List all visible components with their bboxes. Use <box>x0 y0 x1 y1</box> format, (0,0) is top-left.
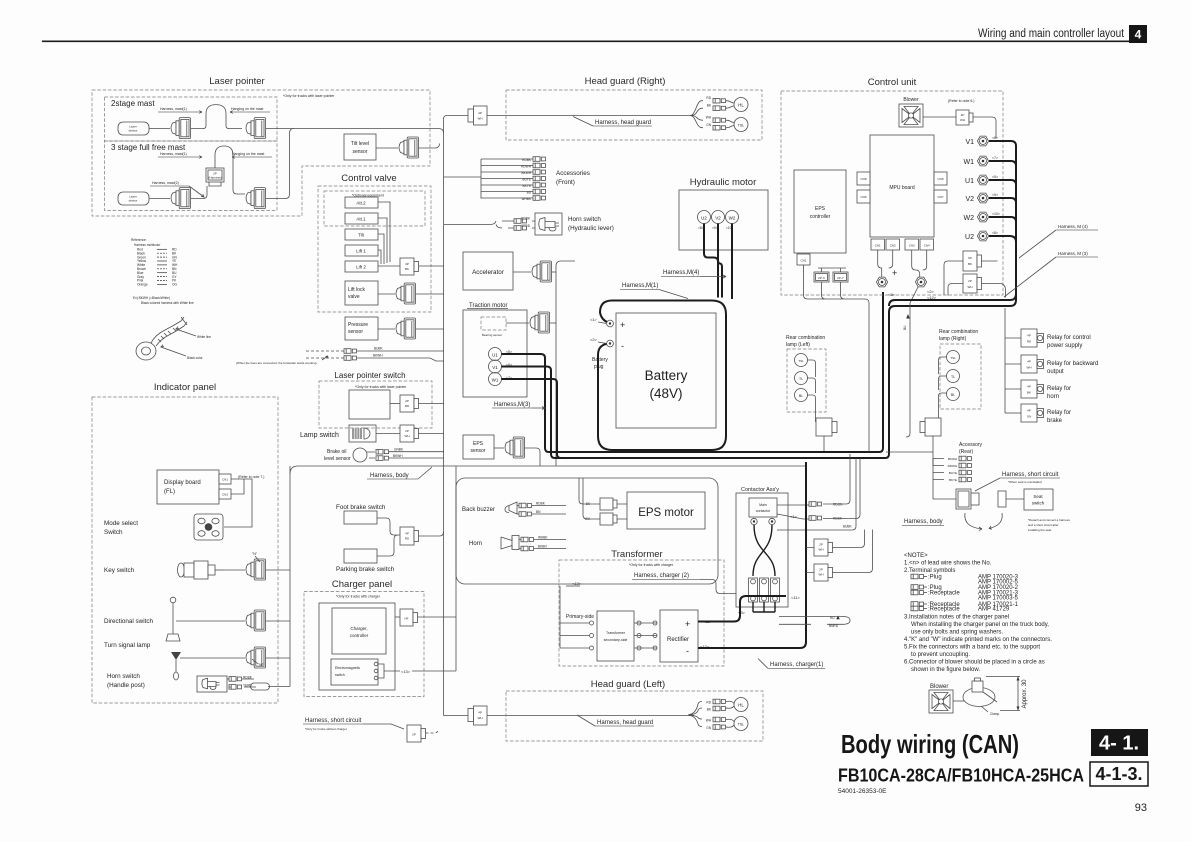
svg-text:WH: WH <box>405 434 410 438</box>
svg-text:RDGN: RDGN <box>833 503 843 507</box>
svg-text:installing the seat.: installing the seat. <box>1028 528 1052 532</box>
svg-text:WH: WH <box>819 573 824 577</box>
svg-text:Relay for: Relay for <box>1047 410 1071 416</box>
svg-text:BUBK: BUBK <box>843 525 853 529</box>
svg-text:Clamp: Clamp <box>990 712 999 716</box>
svg-text:Head guard (Right): Head guard (Right) <box>585 76 666 87</box>
svg-text:secondary-side: secondary-side <box>604 638 628 642</box>
svg-text:contactor: contactor <box>756 509 771 513</box>
head guard left connector 4P WH <box>468 709 474 722</box>
svg-text:(Refer to note 7.): (Refer to note 7.) <box>238 475 264 479</box>
svg-text:Control valve: Control valve <box>341 173 396 184</box>
svg-text:Harness, body: Harness, body <box>904 519 943 525</box>
pressure sensor <box>345 317 378 340</box>
battery cable loop <box>598 301 726 451</box>
svg-text:Directional switch: Directional switch <box>104 618 153 625</box>
charger controller <box>332 608 386 654</box>
svg-text:Harness, short circuit: Harness, short circuit <box>1002 472 1059 478</box>
6P BK connector <box>963 251 977 271</box>
svg-text:Tilt level: Tilt level <box>351 141 369 147</box>
svg-text:FB10CA-28CA/FB10HCA-25HCA: FB10CA-28CA/FB10HCA-25HCA <box>838 765 1084 786</box>
terminal 3 <box>876 277 887 287</box>
hydraulic thick wires <box>704 224 718 298</box>
svg-text:Key switch: Key switch <box>104 567 135 574</box>
svg-text:Tilt: Tilt <box>358 233 365 238</box>
svg-text:TSL: TSL <box>798 359 804 363</box>
horn switch hydraulic <box>444 221 535 228</box>
svg-text:lamp (Left): lamp (Left) <box>786 342 810 348</box>
svg-text:WH: WH <box>706 116 712 120</box>
charger connector <box>400 609 413 626</box>
forwarder count wires <box>306 350 344 352</box>
svg-text:*Only for trucks with charger.: *Only for trucks with charger. <box>629 563 674 567</box>
coiled cable 3stage upper <box>215 146 245 194</box>
tilt level sensor <box>344 134 376 160</box>
wire <box>149 128 170 130</box>
svg-text:When installing the charger pa: When installing the charger panel on the… <box>911 622 1049 628</box>
svg-text:TL: TL <box>951 375 955 379</box>
svg-text:Harness,M(3): Harness,M(3) <box>494 402 530 408</box>
svg-text:Brake oil: Brake oil <box>327 449 346 455</box>
valve Lift 2 <box>345 261 378 272</box>
svg-text:brake: brake <box>1047 418 1063 424</box>
laser device 1 <box>118 122 149 135</box>
svg-text:HL: HL <box>738 703 744 708</box>
svg-text:Accessory: Accessory <box>959 442 983 448</box>
svg-text:+: + <box>685 619 690 629</box>
svg-text:RDBK: RDBK <box>536 502 546 506</box>
svg-text:MPU board: MPU board <box>889 185 915 191</box>
svg-text:CN3: CN3 <box>909 244 915 248</box>
connector mast2 left <box>171 188 191 209</box>
seat switch assembly <box>956 489 971 509</box>
svg-text:*Detach and connect a harness: *Detach and connect a harness <box>1028 518 1070 522</box>
header rule <box>42 40 1147 42</box>
svg-text:RD: RD <box>706 96 711 100</box>
svg-text:Head guard (Left): Head guard (Left) <box>591 679 665 690</box>
svg-text:-: - <box>686 646 689 656</box>
svg-text:BL: BL <box>799 394 803 398</box>
svg-text:BN: BN <box>536 510 541 514</box>
svg-text:Mode select: Mode select <box>104 520 138 527</box>
svg-text:4P: 4P <box>405 532 409 536</box>
svg-text:1.<n> of lead wire shows the N: 1.<n> of lead wire shows the No. <box>904 561 992 567</box>
harness body container top <box>298 465 807 467</box>
svg-text:TL: TL <box>799 377 803 381</box>
svg-text:*When seat is uninstalled: *When seat is uninstalled <box>1008 480 1042 484</box>
svg-text:<9>: <9> <box>712 226 718 230</box>
svg-text:Parking brake switch: Parking brake switch <box>336 566 395 573</box>
svg-text:BL: BL <box>951 393 955 397</box>
svg-text:level sensor: level sensor <box>324 456 351 462</box>
svg-text:CN1: CN1 <box>875 244 881 248</box>
note text <box>904 553 1052 673</box>
svg-text:WH: WH <box>960 118 965 122</box>
svg-text:Turn signal lamp: Turn signal lamp <box>104 642 151 649</box>
svg-text:WH: WH <box>968 285 973 289</box>
header chapter box 4 <box>1129 25 1147 43</box>
svg-text:BK: BK <box>968 262 972 266</box>
svg-text:4P: 4P <box>1027 360 1031 364</box>
svg-text:5.Fix the connectors with a ba: 5.Fix the connectors with a band etc. to… <box>904 645 1040 651</box>
svg-text:Back buzzer: Back buzzer <box>462 507 495 513</box>
coiled cable 3stage lower <box>191 186 207 199</box>
svg-text:WH: WH <box>706 719 712 723</box>
svg-text:output: output <box>1047 369 1064 375</box>
svg-text:BKWH: BKWH <box>948 457 957 461</box>
svg-text:54001-26353-0E: 54001-26353-0E <box>838 788 887 795</box>
valve Att.1 <box>345 213 378 224</box>
CN wires down <box>878 250 927 278</box>
svg-text::Plug: :Plug <box>928 575 942 581</box>
detach arrows <box>965 513 1002 531</box>
connector mast1 left <box>171 118 191 139</box>
svg-text:2P: 2P <box>412 733 416 737</box>
svg-text:2P: 2P <box>405 399 409 403</box>
svg-text:W1: W1 <box>492 378 499 383</box>
svg-text:Horn switch: Horn switch <box>568 216 601 223</box>
svg-text:lamp (Right): lamp (Right) <box>939 336 967 342</box>
rectifier thick wires <box>698 596 786 622</box>
svg-text:"W": "W" <box>258 663 265 667</box>
svg-text:BKBN: BKBN <box>538 545 547 549</box>
svg-text:<6>: <6> <box>992 136 998 140</box>
valve Att.2 <box>345 197 378 208</box>
head lamp HL <box>726 101 734 109</box>
svg-text:Harness, mast(1): Harness, mast(1) <box>160 107 187 111</box>
relay for control power supply <box>1021 329 1044 347</box>
svg-text:Ex) BKWH (=Black/White): Ex) BKWH (=Black/White) <box>133 296 170 300</box>
connector 4P WH top <box>468 109 474 122</box>
svg-text:V2: V2 <box>965 196 974 203</box>
head guard left feed <box>444 715 469 717</box>
svg-text:4-1-3.: 4-1-3. <box>1095 764 1142 784</box>
svg-text:Hanging on the mast: Hanging on the mast <box>231 107 263 111</box>
relay for backward output <box>1021 355 1044 373</box>
svg-text:Att.2: Att.2 <box>356 201 366 206</box>
svg-text:+: + <box>892 268 897 278</box>
svg-text:+: + <box>620 320 625 330</box>
svg-text:Charger,: Charger, <box>350 626 367 631</box>
svg-text:3.Installation notes of the ch: 3.Installation notes of the charger pane… <box>904 615 1009 621</box>
svg-text:BK: BK <box>707 104 712 108</box>
rectifier <box>660 610 698 662</box>
svg-text:2P-X: 2P-X <box>818 276 825 280</box>
svg-text::Receptacle: :Receptacle <box>928 607 960 613</box>
svg-text:Harness,M(1): Harness,M(1) <box>622 283 658 289</box>
relay for horn <box>1021 380 1044 398</box>
svg-text:<13>: <13> <box>401 669 411 674</box>
svg-text:TSL: TSL <box>738 722 744 726</box>
svg-text:AMP 41729: AMP 41729 <box>978 607 1010 613</box>
svg-text:4: 4 <box>1135 28 1142 42</box>
svg-text:Harness multicolor: Harness multicolor <box>134 243 161 247</box>
MPU bottom connectors <box>871 239 885 250</box>
svg-text:(Refer to note 6.): (Refer to note 6.) <box>948 99 974 103</box>
svg-text:Horn: Horn <box>469 541 482 547</box>
valve Tilt <box>345 229 378 240</box>
svg-text:(Harness): (Harness) <box>208 176 221 180</box>
svg-text:Relay for backward: Relay for backward <box>1047 361 1098 367</box>
fuses <box>749 578 780 602</box>
svg-text:Att.1: Att.1 <box>356 217 366 222</box>
svg-text:2P-Y: 2P-Y <box>837 276 844 280</box>
svg-text:Blower: Blower <box>930 684 948 690</box>
svg-text:Battery: Battery <box>592 357 608 363</box>
svg-text:Contactor Ass'y: Contactor Ass'y <box>741 487 779 493</box>
svg-text:Lift 2: Lift 2 <box>356 265 366 270</box>
svg-text:6P: 6P <box>968 256 972 260</box>
svg-text:*Only for trucks without charg: *Only for trucks without charger <box>305 727 347 731</box>
svg-text:Harness, head guard: Harness, head guard <box>595 120 651 126</box>
turn signal lamp TSL <box>726 120 734 128</box>
svg-text:OG: OG <box>172 283 177 287</box>
svg-text:TSL: TSL <box>950 356 956 360</box>
svg-text:controller: controller <box>810 214 831 220</box>
svg-text:(Rear): (Rear) <box>959 449 974 455</box>
svg-text:<2>: <2> <box>927 289 935 294</box>
valve Lift 1 <box>345 245 378 256</box>
svg-text:2P: 2P <box>819 568 823 572</box>
svg-text:Indicator panel: Indicator panel <box>154 382 216 393</box>
svg-text:<5>: <5> <box>992 175 998 179</box>
traction thick wires <box>502 292 884 452</box>
svg-text:CN4: CN4 <box>924 244 930 248</box>
svg-text:U2: U2 <box>701 216 707 221</box>
svg-text:2P: 2P <box>961 113 965 117</box>
svg-text:4P: 4P <box>478 111 482 115</box>
lift lock valve <box>345 281 378 305</box>
svg-text:2P: 2P <box>405 429 409 433</box>
svg-text:(Handle post): (Handle post) <box>107 682 145 689</box>
svg-text:valve: valve <box>348 294 360 300</box>
svg-text:Orange: Orange <box>137 283 148 287</box>
lamp left connector <box>816 418 832 436</box>
svg-text:2P: 2P <box>968 279 972 283</box>
svg-text:GN: GN <box>1027 415 1032 419</box>
svg-text:(When the lines are connected,: (When the lines are connected, the forwa… <box>236 361 317 365</box>
svg-text:AMP 170003-5: AMP 170003-5 <box>978 596 1019 602</box>
svg-text:Lift 1: Lift 1 <box>356 249 366 254</box>
2P WH connector <box>963 274 977 293</box>
svg-text:Charger panel: Charger panel <box>332 579 392 590</box>
svg-text:BKWH: BKWH <box>373 354 383 358</box>
svg-text:BKWH: BKWH <box>393 454 403 458</box>
svg-text:switch: switch <box>1032 501 1045 506</box>
svg-text:HF: HF <box>405 617 409 621</box>
branch wires <box>690 101 703 128</box>
svg-text:<9>: <9> <box>992 193 998 197</box>
mid connector on mast2 cable <box>206 168 224 182</box>
chapter black box <box>1091 729 1148 756</box>
seat switch <box>1024 489 1053 510</box>
svg-text:horn: horn <box>1047 394 1059 400</box>
svg-text:<NOTE>: <NOTE> <box>904 553 928 559</box>
svg-text:Primary-side: Primary-side <box>566 614 594 620</box>
svg-text:V2: V2 <box>715 216 721 221</box>
svg-text:sensor: sensor <box>348 329 363 335</box>
svg-text:GNBK: GNBK <box>394 448 404 452</box>
svg-text:Reference:: Reference: <box>131 238 147 242</box>
svg-text:Bearing sensor: Bearing sensor <box>482 333 502 337</box>
svg-text:Wiring and main controller lay: Wiring and main controller layout <box>978 28 1125 40</box>
svg-text:Harness, body: Harness, body <box>370 473 409 479</box>
turn signal TSL left <box>726 719 734 727</box>
svg-text:TSL: TSL <box>738 123 744 127</box>
svg-text:4P: 4P <box>478 711 482 715</box>
charger feed bus B <box>455 466 457 671</box>
svg-text:Laser pointer: Laser pointer <box>209 76 264 87</box>
svg-text:and a short circuit after: and a short circuit after <box>1028 523 1059 527</box>
accelerator <box>463 252 513 290</box>
svg-text:Control unit: Control unit <box>868 77 917 88</box>
connector mast2 right <box>246 188 266 209</box>
svg-text:use only bolts and spring wash: use only bolts and spring washers. <box>911 630 1003 636</box>
2stage mast box <box>105 97 278 141</box>
svg-text:Harness, M (3): Harness, M (3) <box>1058 251 1088 256</box>
svg-text:Transformer: Transformer <box>606 631 626 635</box>
valve wires to connector <box>378 202 400 266</box>
svg-text:sensor: sensor <box>470 448 485 454</box>
svg-text:4- 1.: 4- 1. <box>1099 733 1139 755</box>
svg-text:EPS: EPS <box>473 441 484 447</box>
terminal thick stubs <box>889 141 1016 306</box>
svg-text:<2>: <2> <box>590 337 598 342</box>
wire vertical bus A <box>444 116 469 120</box>
svg-text:plug: plug <box>594 364 604 370</box>
svg-text:4P: 4P <box>1027 334 1031 338</box>
svg-text:power supply: power supply <box>1047 343 1082 349</box>
svg-text:Harness, charger(1): Harness, charger(1) <box>770 662 823 668</box>
svg-text:U1: U1 <box>492 353 498 358</box>
svg-text:CN1: CN1 <box>800 259 806 263</box>
svg-text:Black colored harness with Whi: Black colored harness with White line <box>141 301 194 305</box>
svg-text:93: 93 <box>1135 802 1147 814</box>
crossing wires to fuses <box>753 525 775 576</box>
svg-text:device: device <box>129 129 138 133</box>
svg-text:*Only for trucks with laser po: *Only for trucks with laser pointer <box>283 94 335 98</box>
svg-text:*Only for trucks with charger: *Only for trucks with charger <box>336 595 381 599</box>
svg-text:<10>: <10> <box>992 212 1000 216</box>
svg-text:W1: W1 <box>964 159 975 166</box>
svg-text:V1: V1 <box>965 139 974 146</box>
connector 4P BK <box>400 258 414 275</box>
svg-text:controller: controller <box>350 633 369 638</box>
svg-text:(FL): (FL) <box>164 489 175 495</box>
svg-text:sensor: sensor <box>352 149 367 155</box>
svg-text:Harness, short circuit: Harness, short circuit <box>305 718 362 724</box>
connector mast1 right <box>246 118 266 139</box>
3 stage box <box>105 141 278 211</box>
svg-text:Harness,M(4): Harness,M(4) <box>663 270 699 276</box>
svg-text:Harness, M (4): Harness, M (4) <box>1058 224 1088 229</box>
svg-text:CN5: CN5 <box>937 177 943 181</box>
svg-text:WH: WH <box>478 716 483 720</box>
svg-text:U1: U1 <box>965 178 974 185</box>
svg-text:Harness, mast(2): Harness, mast(2) <box>152 181 179 185</box>
svg-text::Receptacle: :Receptacle <box>928 591 960 597</box>
svg-text:RDWH: RDWH <box>948 464 957 468</box>
svg-text:Accelerator: Accelerator <box>472 269 504 276</box>
lamp right connector <box>925 418 941 436</box>
svg-text:<3>: <3> <box>888 292 896 297</box>
svg-text:Pressure: Pressure <box>348 322 368 328</box>
svg-text:*Only for trucks with laser po: *Only for trucks with laser pointer <box>355 385 407 389</box>
ring terminal figure <box>136 317 211 360</box>
svg-text:4P: 4P <box>1027 385 1031 389</box>
svg-text:Harness, head guard: Harness, head guard <box>597 720 653 726</box>
svg-text:Foot brake switch: Foot brake switch <box>336 504 386 511</box>
display board <box>157 470 219 504</box>
svg-text:EPS: EPS <box>815 206 826 212</box>
svg-text:Switch: Switch <box>104 529 123 536</box>
thick charger drop <box>800 462 806 648</box>
EPS sensor <box>463 435 494 459</box>
svg-text:Rear combination: Rear combination <box>939 329 978 335</box>
mid bus <box>556 261 575 266</box>
svg-text:WH: WH <box>478 117 483 121</box>
svg-text:6.Connector of blower should b: 6.Connector of blower should be placed i… <box>904 660 1045 666</box>
svg-text:WHBK: WHBK <box>538 536 548 540</box>
svg-text:BK: BK <box>405 267 409 271</box>
svg-text:2stage mast: 2stage mast <box>111 99 155 108</box>
accessories front wires <box>521 158 532 201</box>
dimension <box>986 677 1020 711</box>
svg-text:<7>: <7> <box>992 156 998 160</box>
svg-text:Harness, charger (2): Harness, charger (2) <box>634 573 689 579</box>
traction terminals <box>489 348 502 361</box>
svg-text:Battery: Battery <box>645 368 688 383</box>
EPS motor <box>627 492 705 529</box>
svg-text:Lift lock: Lift lock <box>348 287 365 293</box>
head lamp HL left <box>726 701 734 708</box>
svg-text:BUBK: BUBK <box>374 347 384 351</box>
svg-text:CN1: CN1 <box>222 478 228 482</box>
svg-text:Harness, mast(1): Harness, mast(1) <box>160 152 187 156</box>
svg-text:4P: 4P <box>1027 409 1031 413</box>
svg-text:(Front): (Front) <box>556 179 575 186</box>
svg-text:Electromagnetic: Electromagnetic <box>335 666 360 670</box>
svg-text:device: device <box>129 199 138 203</box>
svg-text:V1: V1 <box>492 365 498 370</box>
svg-text:GN: GN <box>706 726 711 730</box>
svg-text:HL: HL <box>738 103 744 108</box>
svg-text:Lamp switch: Lamp switch <box>300 432 339 439</box>
svg-text:Main: Main <box>759 503 767 507</box>
svg-text:BK: BK <box>707 708 712 712</box>
svg-text:(Hydraulic lever): (Hydraulic lever) <box>568 225 614 232</box>
svg-text:RD: RD <box>706 701 711 705</box>
svg-text:Accessories: Accessories <box>556 170 590 177</box>
svg-text:U2: U2 <box>965 234 974 241</box>
svg-text:-: - <box>621 341 624 351</box>
body loop container <box>456 478 718 584</box>
svg-text:Rectifier: Rectifier <box>667 637 689 643</box>
svg-text:CN7: CN7 <box>937 195 943 199</box>
relay bus <box>1005 308 1021 413</box>
svg-text:<1>: <1> <box>590 317 598 322</box>
svg-text:shown in the figure below.: shown in the figure below. <box>911 667 980 673</box>
svg-text:WH: WH <box>1027 366 1032 370</box>
branch wires <box>688 702 702 727</box>
svg-text:Display board: Display board <box>164 480 201 486</box>
svg-text:BKYE: BKYE <box>949 478 957 482</box>
svg-text:Blower: Blower <box>903 97 919 103</box>
svg-text:WH: WH <box>819 548 824 552</box>
svg-text:Horn switch: Horn switch <box>107 673 140 680</box>
svg-text:CN8: CN8 <box>860 177 866 181</box>
svg-text:Relay for: Relay for <box>1047 386 1071 392</box>
